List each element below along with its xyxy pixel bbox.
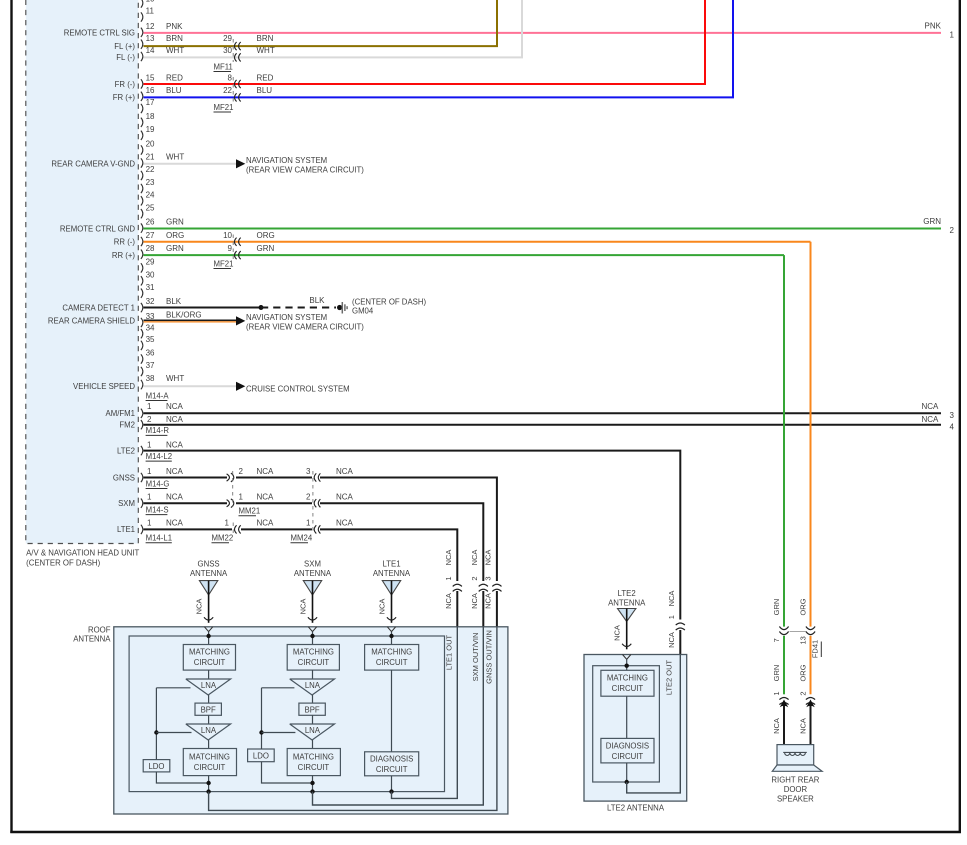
svg-text:NCA: NCA: [483, 550, 492, 566]
svg-text:VEHICLE SPEED: VEHICLE SPEED: [73, 382, 135, 391]
svg-text:30: 30: [146, 270, 155, 279]
wire SXM col 3: [312, 715, 314, 724]
svg-text:21: 21: [146, 153, 155, 162]
LTE1 column entry: [387, 627, 395, 645]
connector MF11: [214, 39, 241, 72]
svg-text:WHT: WHT: [166, 374, 184, 383]
splice node camera detect: [259, 305, 264, 310]
svg-text:GNSS: GNSS: [198, 559, 220, 568]
svg-text:M14-S: M14-S: [146, 505, 169, 514]
svg-text:GNSS OUT/VIN: GNSS OUT/VIN: [484, 630, 493, 684]
svg-text:LDO: LDO: [148, 762, 164, 771]
LTE2 riser labels: [667, 591, 676, 648]
LTE2 column entry: [623, 655, 631, 671]
svg-text:10: 10: [223, 231, 232, 240]
svg-text:SXM OUT/VIN: SXM OUT/VIN: [471, 633, 480, 682]
svg-text:26: 26: [146, 218, 155, 227]
svg-text:M14-A: M14-A: [146, 391, 170, 400]
svg-text:PNK: PNK: [925, 21, 942, 30]
GNSS antenna: [190, 559, 228, 623]
LNA amp GNSS 1: [186, 679, 231, 695]
svg-text:FR (+): FR (+): [113, 93, 136, 102]
connector M14-G: [146, 479, 170, 488]
svg-text:1: 1: [667, 615, 676, 619]
LDO branch GNSS: [154, 688, 208, 783]
svg-text:MM22: MM22: [212, 534, 234, 543]
svg-text:M14-G: M14-G: [146, 479, 170, 488]
wire WHT pin 21 rear camera v-gnd: [144, 153, 365, 175]
wire LTE2 col 1: [626, 696, 628, 738]
svg-text:CIRCUIT: CIRCUIT: [298, 658, 330, 667]
svg-text:LTE2: LTE2: [618, 589, 636, 598]
connector M14-A: [146, 391, 170, 400]
svg-text:GM04: GM04: [352, 307, 374, 316]
svg-text:NAVIGATION SYSTEM: NAVIGATION SYSTEM: [246, 313, 327, 322]
svg-text:SPEAKER: SPEAKER: [777, 794, 814, 803]
matching circuit box LTE1: [365, 645, 419, 671]
svg-text:DOOR: DOOR: [784, 785, 808, 794]
svg-text:MATCHING: MATCHING: [371, 648, 412, 657]
svg-text:29: 29: [146, 258, 155, 267]
svg-text:2: 2: [799, 691, 808, 695]
wire NCA LTE1: [144, 519, 458, 581]
svg-text:M14-L2: M14-L2: [146, 452, 172, 461]
svg-text:15: 15: [146, 74, 155, 83]
svg-text:12: 12: [146, 22, 155, 31]
svg-text:MF21: MF21: [214, 259, 234, 268]
LNA amp GNSS 2: [186, 724, 231, 740]
svg-text:BPF: BPF: [201, 705, 216, 714]
connector arcs speaker GRN: [779, 698, 788, 705]
riser ORG right rear speaker: [799, 242, 811, 696]
wire PNK pin 12 remote ctrl sig: [144, 21, 955, 39]
svg-text:NAVIGATION SYSTEM: NAVIGATION SYSTEM: [246, 156, 327, 165]
svg-text:(REAR VIEW CAMERA CIRCUIT): (REAR VIEW CAMERA CIRCUIT): [246, 165, 364, 174]
svg-text:MM21: MM21: [239, 507, 261, 516]
svg-text:1: 1: [147, 402, 152, 411]
svg-text:NCA: NCA: [257, 493, 275, 502]
svg-text:NCA: NCA: [336, 493, 354, 502]
wire LTE1 col 2: [389, 776, 393, 794]
svg-text:ANTENNA: ANTENNA: [294, 569, 332, 578]
svg-text:31: 31: [146, 283, 155, 292]
wire LTE2 col 2: [625, 763, 629, 784]
svg-text:LTE1: LTE1: [382, 559, 400, 568]
svg-text:NCA: NCA: [336, 519, 354, 528]
svg-text:DIAGNOSIS: DIAGNOSIS: [606, 741, 649, 750]
roof antenna label: [73, 625, 111, 643]
svg-text:37: 37: [146, 361, 155, 370]
svg-text:1: 1: [772, 691, 781, 695]
svg-text:MATCHING: MATCHING: [607, 674, 648, 683]
svg-text:SXM: SXM: [304, 559, 321, 568]
svg-text:2: 2: [147, 415, 152, 424]
svg-text:FM2: FM2: [119, 421, 135, 430]
riser NCA GNSS out: [483, 550, 497, 627]
svg-text:NCA: NCA: [166, 415, 184, 424]
SXM OUT/VIN label: [471, 633, 480, 682]
svg-text:1: 1: [225, 519, 230, 528]
matching circuit box LTE2: [601, 670, 654, 696]
svg-text:17: 17: [146, 98, 155, 107]
wire BRN pin 13 FL+: [144, 0, 498, 46]
svg-text:18: 18: [146, 112, 155, 121]
svg-text:NCA: NCA: [166, 467, 184, 476]
svg-text:CAMERA DETECT 1: CAMERA DETECT 1: [62, 303, 135, 312]
svg-text:ANTENNA: ANTENNA: [373, 569, 411, 578]
svg-text:M14-R: M14-R: [146, 426, 170, 435]
matching circuit box SXM top: [287, 645, 339, 671]
wire SXM col 4: [312, 740, 314, 749]
connector pin cavities and numbers: [141, 0, 155, 534]
svg-text:CIRCUIT: CIRCUIT: [298, 763, 330, 772]
svg-text:28: 28: [146, 244, 155, 253]
svg-text:M14-L1: M14-L1: [146, 534, 172, 543]
wire GNSS out return: [209, 627, 497, 811]
svg-text:1: 1: [147, 493, 152, 502]
svg-text:BLU: BLU: [166, 86, 182, 95]
svg-text:LTE1: LTE1: [117, 525, 135, 534]
svg-text:GNSS: GNSS: [113, 473, 135, 482]
LTE1 antenna symbol: [373, 559, 411, 623]
svg-text:LTE2: LTE2: [117, 446, 135, 455]
svg-text:PNK: PNK: [166, 22, 183, 31]
svg-text:1: 1: [147, 467, 152, 476]
svg-text:MF11: MF11: [214, 62, 233, 71]
svg-text:24: 24: [146, 190, 155, 199]
wire LTE1 col 1: [391, 670, 393, 752]
svg-text:MATCHING: MATCHING: [293, 752, 334, 761]
svg-text:8: 8: [228, 74, 233, 83]
connector M14-R: [146, 426, 170, 435]
wire GRN pin 26 remote ctrl gnd: [144, 217, 955, 235]
wire BLK pin 32 camera detect: [144, 297, 262, 307]
connector MM24: [291, 471, 321, 543]
svg-text:2: 2: [950, 226, 955, 235]
svg-text:11: 11: [146, 7, 155, 16]
svg-text:BLU: BLU: [257, 86, 273, 95]
svg-text:14: 14: [146, 46, 155, 55]
svg-text:10: 10: [146, 0, 155, 3]
svg-text:NCA: NCA: [299, 599, 308, 615]
svg-text:ORG: ORG: [799, 664, 808, 681]
svg-text:REAR CAMERA V-GND: REAR CAMERA V-GND: [51, 160, 135, 169]
svg-text:ANTENNA: ANTENNA: [190, 569, 228, 578]
svg-text:RED: RED: [166, 74, 183, 83]
wire WHT pin 38 vehicle speed: [144, 374, 350, 394]
svg-text:CIRCUIT: CIRCUIT: [376, 765, 408, 774]
svg-text:36: 36: [146, 349, 155, 358]
BPF box GNSS: [195, 703, 221, 715]
svg-text:LNA: LNA: [201, 726, 217, 735]
svg-text:GRN: GRN: [772, 665, 781, 682]
ground GM04: [337, 297, 426, 315]
svg-text:AM/FM1: AM/FM1: [106, 409, 135, 418]
svg-text:NCA: NCA: [444, 593, 453, 609]
svg-text:FR (-): FR (-): [115, 80, 136, 89]
svg-text:BLK/ORG: BLK/ORG: [166, 310, 202, 319]
head unit caption: [26, 549, 139, 568]
svg-text:2: 2: [306, 493, 311, 502]
svg-text:ORG: ORG: [257, 231, 275, 240]
svg-text:27: 27: [146, 231, 155, 240]
svg-text:13: 13: [799, 636, 808, 644]
LNA amp SXM 2: [290, 724, 335, 740]
svg-text:CIRCUIT: CIRCUIT: [376, 658, 408, 667]
connector M14-L1: [146, 534, 172, 543]
LDO box SXM: [248, 749, 275, 762]
wire LTE2 out return: [627, 655, 681, 793]
LTE2 antenna outer box: [584, 655, 687, 802]
svg-text:16: 16: [146, 86, 155, 95]
connector MM21: [227, 471, 261, 516]
LTE1 OUT label: [444, 634, 453, 670]
wire LTE1 out return: [392, 627, 458, 799]
svg-text:23: 23: [146, 178, 155, 187]
riser GRN right rear speaker: [772, 255, 784, 695]
svg-text:25: 25: [146, 203, 155, 212]
svg-text:LDO: LDO: [253, 752, 269, 761]
svg-text:1: 1: [950, 30, 955, 39]
wire GNSS col 4: [208, 740, 210, 749]
matching circuit box GNSS top: [183, 645, 235, 671]
wire NCA FM2: [144, 415, 955, 431]
svg-text:19: 19: [146, 125, 155, 134]
svg-text:2: 2: [239, 467, 244, 476]
svg-text:WHT: WHT: [166, 46, 184, 55]
svg-text:MATCHING: MATCHING: [189, 752, 230, 761]
svg-text:LTE2 ANTENNA: LTE2 ANTENNA: [607, 804, 665, 813]
svg-text:(REAR VIEW CAMERA CIRCUIT): (REAR VIEW CAMERA CIRCUIT): [246, 322, 364, 331]
svg-text:NCA: NCA: [483, 593, 492, 609]
connector MF21 rear: [214, 235, 241, 269]
wire NCA speaker right: [799, 700, 815, 745]
wire NCA speaker left: [772, 700, 788, 745]
svg-text:20: 20: [146, 140, 155, 149]
svg-text:BLK: BLK: [166, 297, 182, 306]
connector arcs GNSS riser: [492, 584, 501, 591]
matching circuit box GNSS bottom: [183, 749, 236, 776]
svg-text:REMOTE CTRL SIG: REMOTE CTRL SIG: [64, 29, 135, 38]
connector arcs LTE2 riser: [676, 623, 685, 655]
SXM column entry: [308, 627, 316, 645]
svg-text:1: 1: [444, 576, 453, 580]
svg-text:FD41: FD41: [811, 640, 820, 658]
svg-text:MATCHING: MATCHING: [293, 648, 334, 657]
svg-text:NCA: NCA: [195, 599, 204, 615]
svg-text:29: 29: [223, 34, 232, 43]
svg-text:CIRCUIT: CIRCUIT: [194, 658, 226, 667]
A/V & navigation head unit box: [26, 0, 139, 544]
connector M14-L2: [146, 452, 172, 461]
wire ORG pin 27 RR-: [144, 231, 811, 242]
LTE2 OUT label: [665, 659, 674, 695]
svg-text:RIGHT REAR: RIGHT REAR: [771, 775, 819, 784]
GNSS OUT/VIN label: [484, 630, 493, 684]
svg-text:REMOTE CTRL GND: REMOTE CTRL GND: [60, 224, 135, 233]
svg-text:35: 35: [146, 335, 155, 344]
svg-text:BPF: BPF: [305, 705, 320, 714]
svg-text:ANTENNA: ANTENNA: [73, 634, 111, 643]
matching circuit box SXM bottom: [287, 749, 340, 776]
LTE2 antenna symbol: [608, 589, 646, 650]
wire NCA GNSS: [144, 467, 497, 581]
svg-text:3: 3: [483, 576, 492, 580]
LDO box GNSS: [143, 760, 170, 772]
svg-text:CRUISE CONTROL SYSTEM: CRUISE CONTROL SYSTEM: [246, 385, 350, 394]
wire RED pin 15 FR-: [144, 0, 706, 84]
svg-text:ORG: ORG: [166, 231, 184, 240]
svg-text:NCA: NCA: [166, 519, 184, 528]
svg-text:NCA: NCA: [444, 550, 453, 566]
connector M14-S: [146, 505, 169, 514]
connector arcs LTE1 riser: [453, 584, 462, 591]
svg-text:BRN: BRN: [257, 34, 274, 43]
wire NCA LTE2: [144, 441, 681, 620]
wire NCA AM/FM1: [144, 402, 955, 420]
speaker caption: [771, 775, 819, 803]
svg-text:BLK: BLK: [309, 296, 325, 305]
wire GNSS col 2: [208, 695, 210, 703]
svg-text:LNA: LNA: [305, 681, 321, 690]
svg-text:SXM: SXM: [118, 499, 135, 508]
wire SXM col 2: [312, 695, 314, 703]
wire SXM col 5: [310, 776, 314, 794]
svg-text:NCA: NCA: [166, 493, 184, 502]
dashed BLK wire to ground: [261, 296, 336, 308]
svg-text:NCA: NCA: [336, 467, 354, 476]
svg-text:NCA: NCA: [667, 591, 676, 607]
svg-text:NCA: NCA: [378, 599, 387, 615]
svg-text:NCA: NCA: [772, 718, 781, 734]
diagnosis circuit box LTE2: [601, 738, 654, 763]
svg-text:(CENTER OF DASH): (CENTER OF DASH): [26, 558, 100, 567]
svg-text:NCA: NCA: [257, 519, 275, 528]
diagnosis circuit box LTE1: [365, 752, 419, 776]
svg-text:7: 7: [772, 638, 781, 642]
svg-text:LNA: LNA: [201, 681, 217, 690]
wire SXM col 1: [312, 670, 314, 679]
svg-text:9: 9: [228, 244, 233, 253]
riser NCA LTE1 out: [444, 550, 458, 627]
svg-text:GRN: GRN: [923, 217, 941, 226]
svg-text:NCA: NCA: [799, 718, 808, 734]
svg-text:3: 3: [306, 467, 311, 476]
svg-text:MM24: MM24: [291, 534, 313, 543]
BPF box SXM: [299, 703, 325, 715]
svg-text:ANTENNA: ANTENNA: [608, 598, 646, 607]
LNA amp SXM 1: [290, 679, 335, 695]
svg-text:22: 22: [146, 165, 155, 174]
connector arcs SXM riser: [479, 584, 488, 591]
connector arcs speaker ORG: [806, 698, 815, 705]
SXM antenna: [294, 559, 332, 623]
LTE2 antenna caption: [607, 804, 665, 813]
svg-text:GRN: GRN: [166, 218, 184, 227]
svg-text:LTE2 OUT: LTE2 OUT: [665, 659, 674, 695]
riser NCA SXM out: [470, 550, 484, 627]
svg-text:1: 1: [147, 519, 152, 528]
svg-text:32: 32: [146, 297, 155, 306]
svg-text:NCA: NCA: [667, 632, 676, 648]
svg-text:30: 30: [223, 46, 232, 55]
svg-text:ORG: ORG: [799, 598, 808, 615]
wire WHT pin 14 FL-: [144, 0, 523, 57]
svg-text:NCA: NCA: [166, 441, 184, 450]
svg-text:38: 38: [146, 374, 155, 383]
svg-text:WHT: WHT: [257, 46, 275, 55]
svg-text:MATCHING: MATCHING: [189, 648, 230, 657]
wire GNSS col 5: [206, 776, 210, 794]
svg-text:RR (+): RR (+): [112, 251, 136, 260]
wire SXM out return: [313, 627, 484, 805]
svg-text:CIRCUIT: CIRCUIT: [612, 752, 644, 761]
svg-text:CIRCUIT: CIRCUIT: [612, 684, 644, 693]
right rear door speaker: [772, 745, 822, 772]
svg-text:NCA: NCA: [166, 402, 184, 411]
wire BLU pin 16 FR+: [144, 0, 734, 97]
connector MF21: [214, 77, 241, 112]
svg-text:LNA: LNA: [305, 726, 321, 735]
wire NCA SXM: [144, 493, 484, 582]
svg-text:FL (+): FL (+): [114, 42, 135, 51]
connector FD41: [779, 627, 821, 659]
wire BLK/ORG pin 33 rear camera shield: [144, 310, 365, 331]
svg-text:NCA: NCA: [470, 550, 479, 566]
LDO branch SXM: [259, 688, 312, 783]
GNSS column entry: [204, 627, 212, 645]
svg-text:NCA: NCA: [613, 625, 622, 641]
svg-text:CIRCUIT: CIRCUIT: [194, 763, 226, 772]
signal name labels: [48, 29, 135, 535]
svg-text:4: 4: [950, 422, 955, 431]
svg-text:GRN: GRN: [257, 244, 275, 253]
svg-text:1: 1: [306, 519, 311, 528]
svg-text:NCA: NCA: [922, 415, 940, 424]
svg-text:(CENTER OF DASH): (CENTER OF DASH): [352, 297, 426, 306]
svg-text:13: 13: [146, 34, 155, 43]
svg-text:22: 22: [223, 86, 232, 95]
svg-text:WHT: WHT: [166, 153, 184, 162]
svg-text:DIAGNOSIS: DIAGNOSIS: [370, 755, 413, 764]
svg-text:REAR CAMERA SHIELD: REAR CAMERA SHIELD: [48, 317, 135, 326]
svg-text:BRN: BRN: [166, 34, 183, 43]
svg-text:LTE1 OUT: LTE1 OUT: [444, 634, 453, 670]
svg-text:NCA: NCA: [470, 593, 479, 609]
svg-text:GRN: GRN: [166, 244, 184, 253]
svg-text:3: 3: [950, 411, 955, 420]
svg-text:RR (-): RR (-): [114, 238, 136, 247]
svg-text:A/V & NAVIGATION HEAD UNIT: A/V & NAVIGATION HEAD UNIT: [26, 549, 139, 558]
svg-text:GRN: GRN: [772, 599, 781, 616]
wire GNSS col 3: [208, 715, 210, 724]
svg-text:34: 34: [146, 323, 155, 332]
roof antenna outer box: [114, 627, 508, 814]
svg-text:2: 2: [470, 576, 479, 580]
connector MM22: [212, 523, 241, 543]
svg-text:RED: RED: [257, 74, 274, 83]
svg-text:1: 1: [239, 493, 244, 502]
svg-text:FL (-): FL (-): [116, 53, 135, 62]
LTE2 antenna inner box: [593, 666, 660, 782]
svg-text:NCA: NCA: [922, 402, 940, 411]
svg-text:NCA: NCA: [257, 467, 275, 476]
svg-text:MF21: MF21: [214, 103, 234, 112]
roof antenna inner box: [129, 636, 444, 792]
svg-text:ROOF: ROOF: [88, 625, 111, 634]
svg-text:1: 1: [147, 441, 152, 450]
wire GNSS col 1: [208, 670, 210, 679]
